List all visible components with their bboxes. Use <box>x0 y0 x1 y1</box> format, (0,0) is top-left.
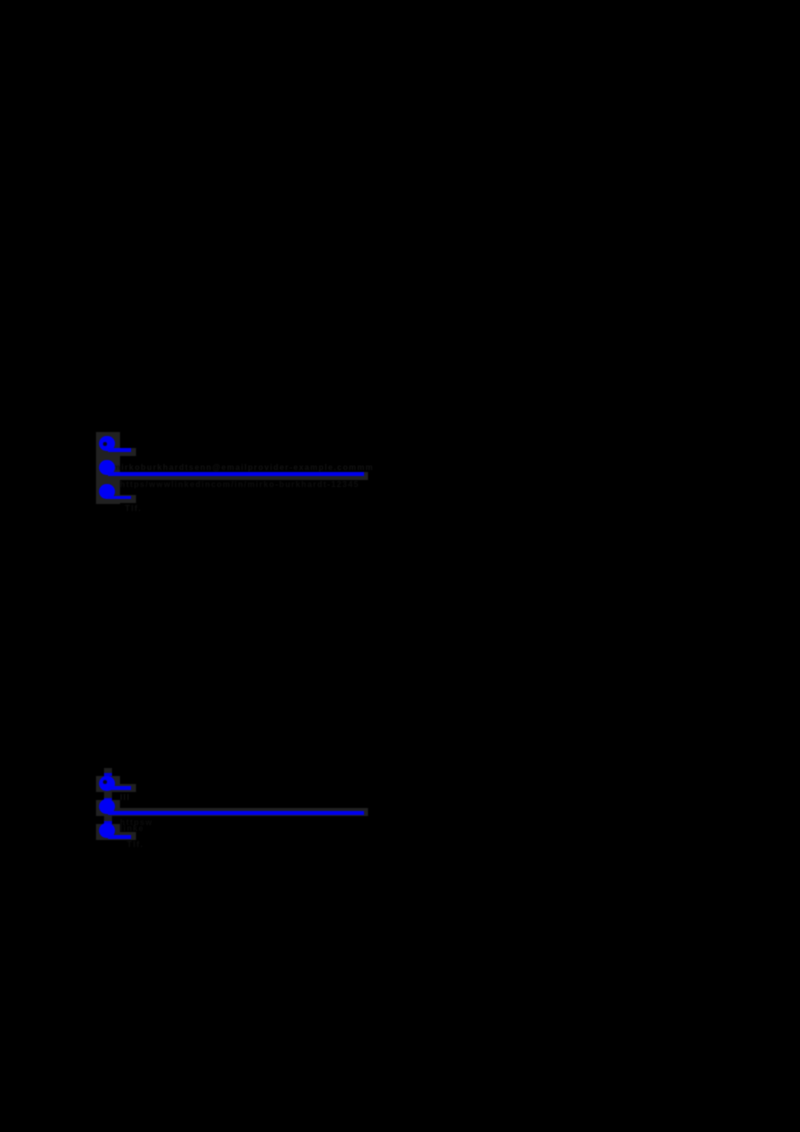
circle icon r1 <box>99 776 115 792</box>
narrow gray connector bar <box>104 768 112 824</box>
faint text below row2 link line a <box>120 819 160 827</box>
gray text bg row1 <box>120 448 136 456</box>
circle icon r2 <box>99 460 115 476</box>
blue underline r1 <box>108 786 131 790</box>
gray icon box r2 <box>96 800 120 816</box>
blue stub above c1 <box>104 773 112 776</box>
circle icon r3 <box>99 823 115 839</box>
gray icon box r1 <box>96 776 120 792</box>
hole in circle r1 <box>103 780 107 784</box>
gray icon column <box>96 432 120 504</box>
gray text bg row1 <box>120 784 136 792</box>
blue underline r2 long <box>108 472 364 476</box>
blue underline r3 <box>108 496 131 500</box>
blue stub above c2 <box>104 798 112 800</box>
gray text bg row3 <box>120 832 136 840</box>
blue stub above c3 <box>104 821 112 824</box>
faint text below row2 link line b <box>120 825 152 833</box>
gray text bg row3 <box>120 495 136 503</box>
gray icon box r3 <box>96 824 120 840</box>
circle icon r1 <box>99 436 115 452</box>
faint text above row2 link <box>113 464 390 472</box>
faint text below box1 <box>120 794 135 802</box>
faint text below group1 <box>125 505 142 513</box>
hole in circle r1 <box>103 442 107 446</box>
faint text below group2 <box>127 841 144 849</box>
circle icon r3 <box>99 484 115 500</box>
gray text bg row2 (long) <box>120 472 368 480</box>
blue underline r2 long <box>108 811 364 815</box>
blue underline r1 <box>108 448 131 452</box>
faint text below row2 link <box>120 481 385 489</box>
gray text bg row2 (long) <box>120 808 368 816</box>
blue underline r3 <box>108 835 131 839</box>
circle icon r2 <box>99 799 115 815</box>
